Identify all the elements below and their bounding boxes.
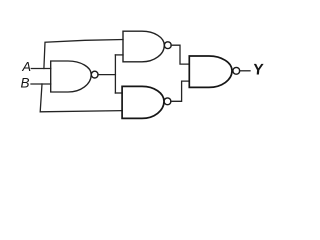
nand-gate U2 body <box>123 31 164 62</box>
svg-text:Y: Y <box>252 62 264 79</box>
nand-gate U3 bubble <box>164 98 171 105</box>
nand-gate U4 bubble <box>233 67 240 74</box>
wire A branch to top NAND <box>44 40 123 69</box>
nand-gate U1 body <box>51 61 91 92</box>
wire U3 output to U4 <box>171 81 189 101</box>
wire to U2 lower input <box>115 54 123 56</box>
svg-text:B: B <box>21 76 30 91</box>
svg-text:A: A <box>21 59 31 74</box>
wire B lead <box>31 83 51 85</box>
nand-gate U2 bubble <box>164 42 171 49</box>
nand-gate U1 bubble <box>91 71 98 78</box>
wire Y output stub <box>240 70 251 72</box>
wire A lead <box>31 68 50 70</box>
wire B branch to bottom NAND <box>40 84 122 112</box>
wire U1 output vertical branch <box>114 55 116 93</box>
nand-gate U3 body <box>122 86 164 118</box>
nand-gate U4 body <box>189 56 232 87</box>
wire to U3 upper input <box>115 92 122 94</box>
wire U1 output stub <box>98 74 116 76</box>
wire U2 output to U4 <box>171 45 189 64</box>
